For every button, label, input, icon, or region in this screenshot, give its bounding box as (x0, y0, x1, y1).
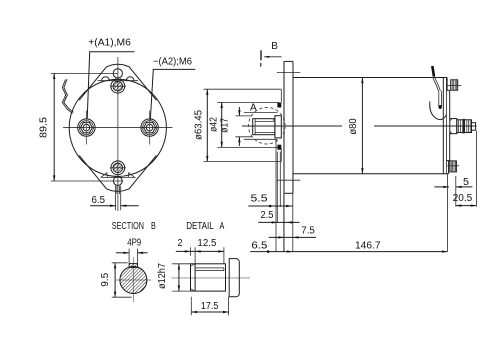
front view horizontal centerline (63, 127, 173, 129)
flange hole sections (filled) (277, 103, 281, 108)
shaft end detail body (191, 264, 226, 291)
extension lines below side view (276, 131, 476, 252)
front view vertical centerline (117, 57, 119, 211)
bottom stud lines (116, 186, 121, 211)
svg-text:A: A (220, 221, 225, 232)
section B mark (261, 41, 282, 66)
shaft section circle (hatched) (120, 267, 147, 294)
svg-text:9.5: 9.5 (100, 272, 111, 286)
bearing boss steps (244, 89, 281, 161)
dimension dia17 (219, 107, 252, 146)
dimension 6.5 front (90, 195, 139, 207)
bottom cap bolt (447, 161, 459, 172)
dimension 2 / 12.5 line (176, 247, 224, 264)
svg-text:SECTION: SECTION (112, 221, 144, 232)
svg-text:89.5: 89.5 (39, 117, 50, 138)
shaft side view (253, 119, 275, 135)
right through-bolt (141, 111, 158, 145)
flange face extension grey (283, 193, 285, 251)
dimension 146.7 (250, 240, 447, 253)
dimension dia42 (208, 102, 278, 147)
dimension 5 (434, 177, 472, 188)
svg-text:5.5: 5.5 (251, 194, 269, 205)
svg-text:−(A2);M6: −(A2);M6 (153, 57, 192, 68)
dimension 4P9 lines (116, 249, 148, 264)
svg-text:B: B (271, 41, 278, 52)
svg-text:ø42: ø42 (208, 117, 219, 132)
svg-text:7.5: 7.5 (301, 226, 315, 237)
svg-text:6.5: 6.5 (251, 240, 267, 251)
svg-text:ø12h7: ø12h7 (157, 263, 168, 289)
dimension dia12h7 (157, 263, 191, 291)
bottom flange slot right (128, 173, 135, 178)
dimension 5.5 (248, 194, 293, 208)
bottom flange chord line (101, 176, 136, 178)
dimension 7.5 (269, 226, 316, 239)
svg-text:ø17: ø17 (219, 118, 230, 133)
wire front view (62, 79, 73, 113)
top flange outline (79, 64, 156, 100)
svg-text:6.5: 6.5 (92, 195, 106, 206)
svg-text:17.5: 17.5 (201, 301, 219, 312)
detail circle A (248, 107, 285, 144)
dimension 2.5 (258, 210, 299, 224)
dimension 9.5 (100, 263, 132, 297)
bottom flange slot left (101, 173, 108, 178)
end cap (443, 78, 449, 174)
motor body circle (69, 79, 166, 176)
top flange slot right (126, 77, 134, 81)
terminal A2 bottom (hatched) (110, 161, 126, 175)
leader -(A2) (150, 69, 195, 120)
leader +(A1) (87, 52, 134, 119)
bottom apex hole (113, 177, 122, 186)
svg-text:146.7: 146.7 (355, 240, 381, 251)
svg-text:2.5: 2.5 (261, 210, 274, 221)
side view centerline (242, 125, 342, 127)
svg-text:2: 2 (178, 238, 183, 249)
dimension dia63.45 (194, 89, 282, 161)
motor body side view (293, 78, 449, 174)
terminal stud side view (450, 119, 476, 134)
svg-text:ø63.45: ø63.45 (194, 110, 205, 140)
left through-bolt (78, 111, 95, 145)
svg-text:+(A1),M6: +(A1),M6 (88, 38, 131, 49)
wire side view (430, 66, 447, 120)
terminal A1 top (hatched) (110, 79, 126, 93)
svg-text:DETAIL: DETAIL (186, 221, 214, 232)
svg-text:B: B (151, 221, 156, 232)
shaft key (hatched) (129, 264, 137, 268)
top cap bolt (447, 80, 461, 90)
bottom flange outline (79, 155, 156, 191)
detail A centerline (172, 277, 251, 279)
dimension 89.5 (39, 73, 124, 181)
shaft collar (275, 116, 281, 138)
top flange slot left (102, 77, 110, 81)
dimension 20.5 (453, 193, 477, 207)
keyway groove detail (195, 268, 224, 271)
top stud lines (115, 78, 117, 81)
svg-text:A: A (250, 103, 257, 114)
mounting flange side view (277, 61, 300, 193)
svg-text:20.5: 20.5 (453, 193, 473, 204)
collar detail (229, 259, 239, 297)
svg-text:12.5: 12.5 (197, 238, 216, 249)
section B centerlines (132, 257, 134, 302)
top apex hole (113, 69, 122, 78)
dimension 17.5 (191, 297, 228, 315)
svg-text:4P9: 4P9 (127, 238, 141, 249)
top flange chord line (98, 80, 139, 82)
svg-text:ø80: ø80 (348, 118, 359, 135)
dimension dia80 (348, 78, 364, 174)
